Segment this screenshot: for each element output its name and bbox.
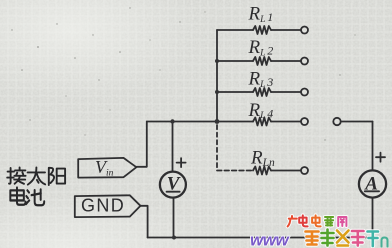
char 太 (28, 167, 46, 184)
plus sign ammeter (376, 153, 385, 162)
wire ammeter rail down (372, 122, 374, 171)
junction bus RL3 (215, 90, 219, 94)
svg-text:www: www (250, 231, 290, 248)
terminal circle RL3 (301, 89, 308, 96)
wire voltmeter top (172, 122, 174, 172)
resistor RL2 (253, 57, 271, 65)
wire selector to right rail (341, 121, 373, 123)
wire GND rail down (141, 206, 148, 238)
char 电 (10, 187, 25, 204)
wire RL4 row right (271, 121, 301, 123)
terminal circle RL2 (301, 58, 308, 65)
wire ammeter bottom (372, 198, 374, 238)
resistor RLn (253, 167, 271, 175)
wire voltmeter bottom (173, 198, 175, 238)
terminal circle RL1 (301, 27, 308, 34)
wire RL1 row right (271, 29, 301, 31)
voltmeter U1 circle (160, 172, 186, 198)
terminal circle RL4 (301, 118, 308, 125)
flag GND outline (75, 195, 141, 217)
bus vertical dashed (RL4 down to RLn) (216, 125, 218, 171)
watermark letter n (382, 238, 388, 247)
wire RL3 row right (271, 91, 301, 93)
resistor RL3 (253, 88, 271, 96)
char 阳 (49, 168, 65, 185)
wire RL2 row right (271, 60, 301, 62)
terminal circle RLn (301, 167, 308, 174)
svg-text:V: V (167, 174, 181, 195)
junction bus RL4 (215, 119, 220, 124)
bus vertical (left rail of load bank, solid from RL1 to RL4) (216, 30, 218, 122)
scan speckles (11, 7, 355, 140)
plus sign voltmeter (177, 158, 186, 167)
wire bottom return (148, 237, 373, 239)
resistor RL1 (253, 26, 271, 34)
wire RL3 row left (217, 91, 253, 93)
ammeter U2 circle (359, 170, 386, 197)
char 池 (26, 189, 44, 205)
junction bus RL2 (215, 59, 219, 63)
op flag Vin outline (78, 158, 136, 178)
junction bottom voltmeter (172, 236, 176, 240)
wire RLn row left (dashed) (217, 170, 253, 172)
text 接太阳 电池 (drawn strokes) (7, 167, 65, 205)
terminal circle selector (333, 118, 340, 125)
wire RL2 row left (217, 60, 253, 62)
wire RLn row right (271, 170, 301, 172)
voltmeter letter underline (167, 191, 180, 193)
junction voltmeter tap (170, 119, 174, 123)
svg-text:A: A (364, 173, 378, 194)
resistor RL4 (253, 118, 271, 126)
ammeter letter underline (365, 190, 379, 192)
wire RL4 row left (from node A through voltmeter tap to bus) (147, 121, 253, 123)
wire RL1 row left (217, 29, 253, 31)
wire Vin rail up (136, 122, 146, 167)
char 接 (7, 167, 25, 183)
svg-text:GND: GND (81, 196, 125, 216)
watermark row1 广电电器网 (288, 215, 347, 226)
